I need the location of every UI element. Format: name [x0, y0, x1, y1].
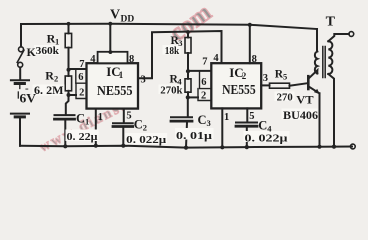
wire R3 to R4 [187, 53, 189, 79]
node C1 rail [63, 144, 67, 148]
svg-text:1: 1 [55, 36, 59, 46]
svg-text:-: - [25, 83, 29, 95]
capacitor C2 top plate [113, 122, 133, 124]
capacitor C2 bottom plate [113, 125, 133, 128]
svg-text:0. 01μ: 0. 01μ [176, 131, 212, 142]
resistor R2 body [65, 76, 71, 91]
node R1 R2 pin7 [67, 68, 71, 72]
capacitor C3 top plate [171, 116, 192, 118]
switch K terminal top [19, 47, 24, 52]
resistor R1 body [65, 33, 71, 47]
capacitor C4 top plate [236, 122, 257, 124]
node VDD [108, 22, 112, 26]
node C4 rail [245, 145, 249, 149]
svg-text:1: 1 [98, 112, 103, 123]
node R1 top [67, 22, 71, 26]
wire C1 to rail [64, 120, 66, 146]
svg-text:NE555: NE555 [222, 82, 256, 97]
pin2 box IC2 [198, 89, 211, 101]
transformer T primary winding [315, 52, 318, 74]
wire pin3 IC1 to pin4 IC2 [138, 31, 222, 78]
battery tick [17, 92, 19, 98]
op-amp U1 box IC1 [87, 63, 139, 108]
transformer T secondary winding [328, 41, 332, 74]
svg-text:270k: 270k [160, 85, 182, 96]
wire rail corner to transformer primary [316, 29, 318, 52]
wire emitter to rail [319, 93, 321, 146]
svg-text:VT: VT [296, 92, 313, 106]
svg-text:5: 5 [126, 111, 131, 122]
wire battery to bottom rail [19, 118, 21, 145]
transistor Q1 emitter [309, 87, 320, 94]
svg-text:8: 8 [252, 54, 257, 65]
capacitor C3 bottom plate [171, 120, 192, 123]
wire VDD drop [109, 24, 111, 52]
wire switch to battery [19, 67, 21, 79]
watermark com top [165, 0, 217, 47]
node C2 rail [121, 144, 125, 148]
svg-text:C: C [198, 113, 207, 127]
svg-text:1: 1 [224, 112, 229, 123]
svg-text:18k: 18k [165, 46, 180, 57]
battery cell2 long plate [11, 113, 29, 115]
wire pin1 IC1 to rail [95, 109, 97, 146]
svg-text:8: 8 [129, 54, 134, 65]
node emitter rail [317, 145, 321, 149]
svg-text:1: 1 [119, 70, 124, 80]
svg-text:0. 22μ: 0. 22μ [67, 132, 98, 143]
node R3 R4 pin7 [186, 69, 190, 73]
switch K blade [17, 50, 24, 62]
svg-text:0. 022μ: 0. 022μ [245, 133, 288, 144]
wire node2 IC2 [188, 96, 198, 98]
node pin1 IC1 rail [94, 144, 98, 148]
wire pin7 IC1 [69, 68, 88, 70]
wire node to C1 [66, 95, 69, 114]
svg-text:2: 2 [143, 123, 147, 133]
transistor emitter arrow [314, 89, 320, 94]
wire secondary bottom to rail [328, 74, 334, 147]
battery cell1 long plate [11, 79, 29, 81]
wire pin5 IC1 to C2 [123, 109, 125, 123]
capacitor C4 bottom plate [236, 125, 257, 128]
svg-text:360k: 360k [36, 46, 59, 57]
svg-text:6: 6 [78, 72, 83, 83]
pin6 box IC1 [76, 70, 87, 84]
wire top rail [21, 24, 317, 29]
wire node to C3 [187, 97, 189, 116]
svg-text:3: 3 [263, 73, 268, 84]
terminal bottom right [350, 144, 355, 149]
svg-text:2: 2 [54, 73, 58, 83]
wire pin8 IC2 stub [249, 25, 251, 63]
wire pin3 IC2 to R5 [261, 84, 269, 86]
svg-text:2: 2 [201, 90, 206, 101]
node R4 C3 pin2 [186, 95, 190, 99]
IC1 cap rect pins 4-8 [98, 52, 128, 63]
svg-text:3: 3 [141, 75, 146, 86]
svg-text:C: C [134, 118, 143, 132]
wire node7 IC2 [188, 70, 211, 72]
node cap rect IC1 [109, 50, 113, 54]
transistor Q1 collector [309, 70, 318, 78]
battery cell2 short thick plate [15, 115, 24, 118]
wire bottom rail [20, 146, 352, 148]
svg-text:4: 4 [213, 53, 219, 64]
wire R1 to node7 [68, 48, 70, 76]
resistor R3 body [185, 38, 191, 54]
svg-text:2: 2 [79, 87, 84, 98]
wire left drop to switch [20, 24, 22, 47]
battery mid stub [19, 85, 21, 89]
battery cell1 short thick plate [15, 82, 24, 85]
svg-text:6: 6 [201, 77, 206, 88]
svg-text:0. 022μ: 0. 022μ [126, 135, 166, 146]
wire pin2 IC1 [69, 94, 77, 96]
terminal top right [349, 32, 354, 37]
svg-text:NE555: NE555 [97, 83, 133, 98]
resistor R5 body [270, 83, 290, 88]
wire C2 to rail [122, 128, 124, 146]
transformer core [322, 47, 324, 78]
node R2 C1 pin2 [67, 93, 71, 97]
op-amp U2 box IC2 [211, 63, 261, 108]
node pin1 IC2 rail [220, 145, 224, 149]
svg-text:BU406: BU406 [283, 108, 318, 122]
label halos [33, 45, 318, 144]
svg-text:270: 270 [277, 92, 293, 103]
svg-text:C: C [76, 112, 85, 126]
node secondary rail [332, 145, 336, 149]
wire pin1 IC2 to rail [221, 108, 223, 147]
capacitor C1 bottom plate [55, 118, 75, 121]
node R3 top [186, 30, 190, 34]
wire secondary top to terminal [328, 34, 349, 41]
svg-text:V: V [110, 8, 120, 23]
svg-text:R: R [45, 68, 54, 82]
wire R4 to node [187, 92, 189, 97]
svg-text:4: 4 [90, 54, 96, 65]
svg-text:DD: DD [121, 14, 135, 24]
svg-text:2: 2 [242, 71, 247, 81]
svg-text:C: C [258, 119, 267, 133]
svg-text:T: T [326, 15, 336, 30]
svg-text:5: 5 [283, 72, 287, 82]
wire C3 to rail [186, 122, 187, 147]
wire R5 to base [290, 83, 308, 86]
wire rail to R1 [68, 24, 70, 34]
svg-text:4: 4 [267, 124, 272, 134]
wire R2 to node2 [68, 91, 70, 95]
watermark www.dianzichang diagonal [37, 94, 138, 156]
svg-text:K: K [27, 45, 37, 59]
svg-text:5: 5 [249, 111, 254, 122]
svg-text:7: 7 [79, 59, 84, 70]
wire pin5 IC2 to C4 [246, 108, 248, 121]
transistor Q1 base bar [307, 76, 310, 89]
svg-text:3: 3 [207, 118, 211, 128]
switch K terminal bottom [18, 62, 23, 67]
node pin8 IC2 rail [248, 23, 252, 27]
svg-text:1: 1 [85, 117, 89, 127]
wire C4 to rail [246, 128, 248, 148]
pin6 box IC2 [200, 72, 211, 89]
resistor R4 body [185, 79, 191, 92]
node C3 rail [184, 146, 188, 150]
svg-text:6. 2M: 6. 2M [34, 85, 64, 97]
wire R3 stub [187, 32, 189, 37]
pin2 box IC1 [76, 83, 87, 98]
svg-text:7: 7 [202, 57, 207, 68]
capacitor C1 top plate [55, 114, 75, 116]
